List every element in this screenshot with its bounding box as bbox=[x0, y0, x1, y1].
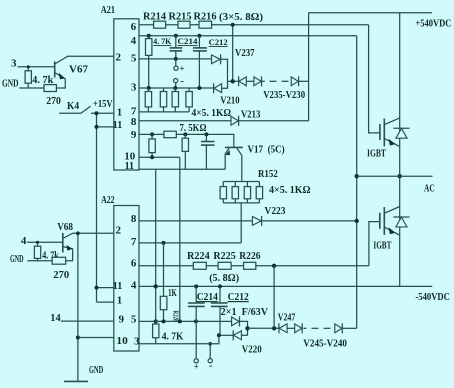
svg-text:4. 7K: 4. 7K bbox=[162, 331, 184, 343]
wire A22 pin6 row bbox=[139, 265, 369, 267]
svg-text:3: 3 bbox=[131, 81, 137, 93]
wire A21 pin10 row bbox=[139, 155, 180, 159]
svg-text:V235-V230: V235-V230 bbox=[263, 89, 305, 101]
wire R152 to A22 pin7 row bbox=[240, 203, 242, 243]
svg-text:4: 4 bbox=[131, 35, 137, 47]
svg-text:11: 11 bbox=[113, 280, 123, 292]
wire A21 pin9 row with 7.5K resistor bbox=[139, 131, 234, 147]
wire IGBT2 gate feed bbox=[369, 222, 380, 266]
svg-text:+: + bbox=[180, 64, 185, 74]
resistor pin9 to pin10 bbox=[149, 134, 155, 157]
wire AC output row bbox=[357, 175, 433, 177]
svg-text:IGBT: IGBT bbox=[367, 147, 386, 159]
svg-text:+15V: +15V bbox=[93, 98, 113, 110]
svg-text:GND: GND bbox=[10, 253, 24, 265]
wire long column AC node bbox=[355, 36, 359, 329]
resistor 270 bottom-left bbox=[52, 257, 65, 264]
wire -540VDC rail / A22 pin4 row bbox=[139, 284, 432, 288]
svg-text:4×5. 1KΩ: 4×5. 1KΩ bbox=[192, 107, 232, 119]
wire GND row bbox=[19, 87, 44, 89]
wire A22 pin3 row bbox=[139, 335, 219, 344]
svg-text:R152: R152 bbox=[258, 168, 278, 180]
terminal jack minus lower bbox=[208, 342, 213, 371]
svg-text:R224: R224 bbox=[187, 250, 210, 262]
wire 4 to V68 base bbox=[27, 241, 63, 243]
svg-text:C214: C214 bbox=[197, 291, 219, 303]
resistor network R152 bbox=[220, 182, 263, 203]
svg-text:A22: A22 bbox=[101, 194, 115, 206]
wire A21 pin6 row bbox=[139, 24, 369, 26]
transistor IGBT lower bbox=[380, 207, 400, 236]
svg-text:4: 4 bbox=[131, 279, 137, 291]
svg-text:V223: V223 bbox=[265, 205, 286, 217]
transistor V67 bbox=[55, 56, 114, 88]
op-amp A22 box bbox=[114, 206, 139, 352]
svg-text:V247: V247 bbox=[278, 311, 296, 323]
svg-text:1: 1 bbox=[117, 106, 123, 118]
wire V220 output row bbox=[248, 326, 279, 330]
svg-text:270: 270 bbox=[53, 269, 69, 281]
capacitor C214 lower bbox=[188, 286, 205, 358]
svg-text:V237: V237 bbox=[235, 47, 255, 59]
A22 pin numbers bbox=[113, 213, 140, 348]
svg-text:+: + bbox=[194, 362, 199, 372]
wire A21 pin3 row bbox=[139, 87, 214, 89]
svg-text:10: 10 bbox=[116, 335, 128, 347]
resistor R214 bbox=[154, 21, 166, 28]
svg-text:4: 4 bbox=[21, 235, 27, 247]
resistor R216 bbox=[199, 21, 212, 28]
wire +540 column bbox=[308, 13, 310, 121]
svg-text:C212: C212 bbox=[228, 291, 250, 303]
svg-text:11: 11 bbox=[125, 160, 135, 172]
svg-text:3: 3 bbox=[134, 336, 140, 348]
svg-text:GND: GND bbox=[2, 77, 19, 89]
freewheel diode lower bbox=[393, 217, 409, 227]
svg-text:5: 5 bbox=[131, 52, 137, 64]
wire A21 pin7 row bbox=[139, 111, 189, 113]
svg-text:V213: V213 bbox=[241, 108, 261, 120]
svg-text:4. 7K: 4. 7K bbox=[153, 36, 171, 46]
svg-text:V67: V67 bbox=[69, 64, 88, 76]
svg-text:5: 5 bbox=[131, 313, 137, 325]
svg-text:9: 9 bbox=[119, 313, 125, 325]
wire A22 pin5 row bbox=[139, 319, 232, 323]
wire A21 pin4 row bbox=[139, 35, 357, 37]
svg-text:270: 270 bbox=[46, 95, 61, 107]
wire GND row bottom bbox=[27, 260, 52, 262]
svg-text:V68: V68 bbox=[57, 221, 73, 233]
svg-text:8: 8 bbox=[131, 116, 137, 128]
svg-text:R225: R225 bbox=[213, 250, 236, 262]
resistor bank 4x5.1K upper bbox=[145, 88, 192, 112]
capacitor pin9 to pin11 bbox=[201, 134, 215, 169]
transistor V68 bbox=[63, 233, 114, 261]
svg-text:-: - bbox=[180, 76, 184, 86]
resistor R215 bbox=[178, 21, 190, 28]
transistor V17 bbox=[225, 147, 243, 181]
svg-text:8: 8 bbox=[131, 213, 137, 225]
svg-text:3: 3 bbox=[11, 58, 17, 70]
wire 3 to V67 base bbox=[18, 66, 55, 68]
capacitor C214 upper bbox=[170, 36, 183, 59]
svg-text:AC: AC bbox=[424, 183, 435, 195]
wire A21 pin5 row bbox=[139, 58, 212, 60]
svg-text:1: 1 bbox=[117, 294, 123, 306]
wire ground column bbox=[76, 231, 80, 381]
svg-text:2: 2 bbox=[116, 224, 122, 236]
svg-text:V245-V240: V245-V240 bbox=[303, 338, 347, 350]
svg-text:+540VDC: +540VDC bbox=[415, 17, 451, 29]
wire A22 pin7 row bbox=[139, 241, 241, 245]
diode V237 bbox=[212, 54, 228, 88]
svg-text:1K: 1K bbox=[168, 287, 177, 299]
svg-text:11: 11 bbox=[113, 119, 123, 131]
svg-text:K4: K4 bbox=[67, 100, 80, 112]
resistor R225 bbox=[218, 262, 231, 269]
diode chain V235-V230 bbox=[239, 76, 309, 86]
svg-text:A21: A21 bbox=[101, 4, 115, 16]
resistor 4.7K upper bbox=[146, 36, 152, 88]
wire IGBT1 gate feed bbox=[369, 25, 380, 133]
diode V247 bbox=[278, 323, 280, 333]
svg-text:IGBT: IGBT bbox=[373, 240, 391, 252]
svg-text:7: 7 bbox=[131, 236, 137, 248]
wire column pin6 row to V247 row bbox=[273, 266, 275, 329]
capacitor C212 lower bbox=[211, 286, 228, 335]
svg-text:14: 14 bbox=[50, 312, 61, 324]
svg-text:9: 9 bbox=[131, 129, 137, 141]
resistor 1K R228 column bbox=[160, 243, 167, 322]
wire IGBT main column bbox=[398, 13, 402, 287]
svg-text:R216: R216 bbox=[194, 10, 217, 22]
wire +15V vertical bus bbox=[95, 111, 114, 302]
svg-text:6: 6 bbox=[131, 21, 137, 33]
svg-text:R214: R214 bbox=[143, 10, 166, 22]
ground symbol bbox=[64, 380, 88, 382]
resistor 4.7k top-left bbox=[25, 65, 31, 88]
wire A22 pin8 row bbox=[139, 220, 252, 222]
diode chain V245-V240 bbox=[287, 323, 357, 333]
wire 14 to A22 pin9 bbox=[61, 320, 114, 322]
svg-text:2×1 F/63V: 2×1 F/63V bbox=[221, 306, 269, 318]
resistor R224 bbox=[193, 262, 206, 269]
freewheel diode upper bbox=[393, 128, 409, 138]
terminal jack plus lower bbox=[194, 359, 199, 372]
svg-text:(3×5. 8Ω): (3×5. 8Ω) bbox=[219, 11, 263, 23]
svg-text:C212: C212 bbox=[209, 37, 228, 47]
svg-text:(5. 8Ω): (5. 8Ω) bbox=[209, 272, 239, 284]
junction dots pin4 row bbox=[147, 34, 151, 38]
wire pin6 column to chain junction bbox=[228, 23, 239, 84]
svg-text:-540VDC: -540VDC bbox=[415, 291, 450, 303]
resistor 4.7k bottom-left bbox=[34, 241, 40, 261]
wire column A21 pin11 to A22 pin3 with 4.7K resistor bbox=[153, 169, 159, 343]
resistor pin9 to pin11 bbox=[182, 134, 188, 169]
diode V210 bbox=[213, 83, 215, 93]
wire A21 pin11 row bbox=[139, 168, 225, 170]
wire A21 pin8 row with diode V213 bbox=[139, 116, 309, 126]
svg-text:V17 (5C): V17 (5C) bbox=[248, 144, 285, 156]
svg-text:6: 6 bbox=[131, 257, 137, 269]
wire +540VDC rail bbox=[309, 12, 432, 14]
junction dot pin6 row bbox=[272, 264, 276, 268]
resistor 270 top-left bbox=[44, 85, 56, 92]
svg-text:R215: R215 bbox=[169, 10, 192, 22]
diode V223 bbox=[252, 216, 356, 226]
svg-text:R226: R226 bbox=[239, 250, 261, 262]
A21 pin numbers bbox=[113, 21, 137, 172]
switch K4 bbox=[59, 106, 114, 113]
terminal jack plus bbox=[174, 59, 185, 74]
svg-text:2: 2 bbox=[116, 51, 122, 63]
svg-text:7. 5KΩ: 7. 5KΩ bbox=[180, 122, 207, 134]
svg-text:4×5. 1KΩ: 4×5. 1KΩ bbox=[269, 184, 311, 196]
svg-text:C214: C214 bbox=[178, 36, 199, 46]
svg-text:-: - bbox=[209, 361, 213, 371]
capacitor C212 upper bbox=[193, 36, 207, 88]
svg-text:V210: V210 bbox=[220, 95, 240, 107]
wire long column pin10 to A22 pin5 row bbox=[179, 157, 181, 321]
resistor R226 bbox=[244, 262, 256, 269]
transistor IGBT upper bbox=[380, 118, 400, 147]
svg-text:GND: GND bbox=[89, 364, 103, 376]
diode pair V220 bbox=[217, 316, 250, 340]
terminal jack minus bbox=[174, 76, 184, 88]
op-amp A21 box bbox=[114, 19, 139, 170]
wire A22 pin10 row bbox=[78, 337, 114, 339]
svg-text:V220: V220 bbox=[242, 343, 262, 355]
